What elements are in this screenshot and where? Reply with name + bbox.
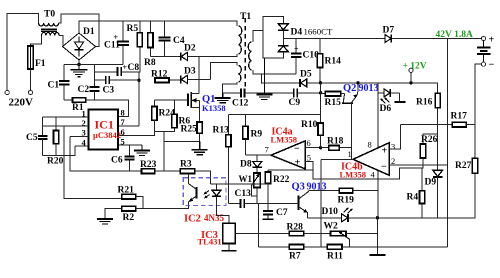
wire pin2 column down to R21	[64, 126, 122, 198]
resistor R18	[321, 147, 329, 149]
svg-text:C6: C6	[111, 156, 123, 166]
transformer T1 barrier dashed line	[244, 18, 246, 90]
resistor R2	[122, 206, 136, 211]
bridge D1 inner diode	[75, 37, 84, 57]
wire R21 R2 right join	[136, 197, 143, 209]
ground primary (C12)	[215, 93, 231, 103]
svg-text:R3: R3	[180, 160, 192, 170]
wire secondary bottom to ground line	[253, 70, 296, 74]
resistor R4	[420, 191, 425, 204]
potentiometer W2	[331, 231, 347, 236]
svg-text:Q2: Q2	[343, 83, 356, 94]
resistor R24	[154, 100, 156, 106]
wire bridge bottom to ground node	[78, 60, 80, 65]
transistor Q2	[341, 83, 358, 103]
wire T0 bottom coil right to bridge left vertex	[59, 36, 63, 47]
svg-text:1660CT: 1660CT	[304, 26, 333, 36]
svg-text:D2: D2	[184, 44, 196, 54]
wire Q2 base column	[351, 103, 353, 159]
wire C5 R20 bottom line to pin4 column	[43, 146, 76, 155]
wire IC4b pin4 column	[377, 168, 379, 218]
capacitor C8	[117, 67, 119, 76]
wire R2 left to ground	[105, 209, 122, 219]
wire IC4a pin5 path	[305, 162, 422, 180]
svg-text:220V: 220V	[9, 97, 34, 109]
svg-text:4N35: 4N35	[204, 213, 224, 223]
svg-text:C2: C2	[78, 85, 90, 95]
svg-text:7: 7	[265, 145, 269, 155]
resistor R28	[289, 231, 304, 236]
transformer T1 secondary winding	[248, 42, 251, 70]
wire drain line to T1 primary bottom	[199, 54, 237, 56]
wire C8 line	[94, 71, 117, 73]
capacitor C11	[122, 21, 124, 41]
svg-text:D7: D7	[383, 26, 395, 36]
bridge rectifier D1 diamond	[63, 33, 96, 60]
wire aux winding bottom to primary ground	[223, 82, 237, 93]
resistor R11	[327, 245, 342, 250]
wire R28 line	[258, 233, 289, 235]
svg-text:+: +	[295, 158, 301, 169]
wire T0 bottom coil left to fuse	[31, 36, 42, 47]
svg-text:R14: R14	[325, 57, 342, 67]
wire drain column	[198, 56, 200, 93]
node Q2 emitter on rail	[356, 81, 359, 84]
svg-text:R11: R11	[327, 252, 343, 262]
svg-text:R7: R7	[289, 252, 301, 262]
resistor R16	[435, 93, 440, 108]
svg-text:D6: D6	[380, 104, 392, 114]
ground Q1 source sense	[192, 141, 208, 154]
svg-text:+ 12V: + 12V	[403, 62, 427, 72]
svg-text:−: −	[381, 162, 387, 173]
svg-text:3: 3	[391, 142, 395, 152]
capacitor C2	[93, 65, 95, 87]
wire 42V sense riser	[447, 39, 449, 247]
diode D7	[385, 35, 391, 43]
opto LED	[204, 178, 227, 205]
resistor R15	[321, 93, 326, 95]
wire opto LED cathode to TL431	[217, 205, 230, 223]
svg-text:9013: 9013	[359, 83, 379, 94]
wire IC4b output feedback column	[320, 159, 322, 247]
svg-text:C7: C7	[276, 208, 288, 218]
resistor R27	[472, 158, 477, 173]
svg-text:8: 8	[121, 108, 125, 118]
wire R22 top branch	[268, 169, 313, 171]
wire mains left vertical	[7, 14, 38, 91]
svg-text:R19: R19	[338, 196, 355, 206]
svg-text:R18: R18	[327, 137, 344, 147]
diode D8	[253, 155, 262, 173]
ground IC1 pin5	[134, 145, 150, 156]
wire secondary top tap	[253, 31, 263, 42]
svg-text:8: 8	[368, 140, 372, 150]
svg-text:R10: R10	[301, 120, 318, 130]
svg-text:42V 1.8A: 42V 1.8A	[436, 30, 473, 40]
op-amp IC4a	[271, 141, 305, 169]
wire D5 branch from ground line	[262, 74, 300, 83]
svg-text:−: −	[489, 60, 495, 71]
svg-text:−: −	[294, 144, 300, 155]
transformer T1 primary winding	[239, 26, 242, 54]
diode D6 LED	[378, 89, 406, 104]
wire IC4b power column	[377, 83, 379, 149]
node pin6 R10 junction	[319, 146, 322, 149]
svg-text:Q3: Q3	[292, 182, 305, 193]
node D10 junction	[376, 216, 379, 219]
wire snubber D2 line	[150, 55, 180, 57]
capacitor C13	[229, 202, 241, 204]
battery symbol	[477, 41, 491, 63]
wire R27 bottom to bottom net	[377, 173, 475, 217]
wire TL431 bottom bar	[228, 244, 230, 251]
wire R13 column down to C13 line	[228, 147, 230, 204]
resistor R25	[197, 122, 202, 133]
diode D2	[181, 52, 199, 60]
wire R1 to pin8	[86, 100, 129, 117]
wire D3 to aux winding top	[211, 62, 237, 79]
wire R6 bottom jog to column	[164, 128, 174, 132]
resistor R19	[339, 188, 353, 193]
resistor R14	[319, 39, 321, 54]
resistor R8	[148, 33, 153, 48]
ground secondary main	[256, 58, 272, 100]
svg-text:R2: R2	[123, 213, 135, 223]
diode D4 lower	[278, 39, 288, 52]
svg-text:R15: R15	[325, 98, 342, 108]
svg-text:+: +	[382, 146, 388, 157]
wire R12 line to D3	[169, 79, 181, 81]
svg-text:R25: R25	[181, 125, 198, 135]
wire column x164 to pin3 line	[155, 132, 165, 171]
wire C3/R12 line from C2 column	[94, 79, 105, 81]
resistor R10	[318, 123, 323, 135]
wire R19 line	[309, 190, 339, 193]
svg-text:LM358: LM358	[340, 170, 366, 180]
diode D10 LED	[342, 207, 378, 222]
diode D3	[181, 75, 211, 83]
svg-text:K1358: K1358	[202, 103, 226, 113]
opto transistor	[188, 174, 196, 206]
ground R2	[97, 219, 113, 224]
wire gate line	[155, 99, 181, 101]
svg-text:IC2: IC2	[184, 214, 201, 225]
resistor R26	[420, 144, 425, 158]
node VCC junction	[137, 79, 140, 82]
wire R22 bottom to C7	[267, 184, 269, 211]
svg-text:R13: R13	[213, 126, 230, 136]
transformer T0 bottom winding	[42, 32, 60, 35]
resistor R23	[142, 169, 155, 174]
capacitor C9	[293, 88, 295, 97]
wire IC4b output line	[321, 158, 353, 160]
svg-text:R20: R20	[47, 157, 64, 167]
transformer T1 aux winding	[238, 65, 241, 82]
svg-text:D8: D8	[240, 160, 252, 170]
node 12V terminal junction	[409, 81, 412, 84]
wire R9 bottom to op-amp output line	[245, 139, 247, 155]
svg-text:LM358: LM358	[271, 135, 297, 145]
ground primary (bridge)	[70, 65, 87, 77]
svg-text:T0: T0	[44, 10, 55, 20]
svg-text:R16: R16	[416, 98, 433, 108]
svg-text:W2: W2	[324, 222, 339, 232]
resistor R17	[401, 124, 453, 126]
transformer T0 top winding	[39, 23, 59, 26]
capacitor C10	[295, 39, 297, 54]
capacitor C12	[223, 92, 241, 94]
resistor R21	[122, 194, 136, 199]
resistor R3	[180, 169, 194, 174]
svg-text:6: 6	[307, 138, 311, 148]
wire R7 line	[258, 246, 289, 248]
wire opto emitter line	[143, 205, 189, 208]
wire pin3 column down to long line	[70, 136, 211, 171]
svg-text:C9: C9	[289, 98, 301, 108]
svg-text:R8: R8	[144, 58, 156, 68]
svg-text:D4: D4	[291, 28, 303, 38]
svg-text:D9: D9	[425, 178, 437, 188]
node bridge ground junction	[77, 63, 80, 66]
svg-text:R12: R12	[151, 70, 168, 80]
wire primary ground rail	[64, 64, 123, 66]
svg-text:C8: C8	[128, 63, 140, 73]
capacitor C7	[263, 210, 273, 212]
capacitor C6	[129, 145, 131, 156]
wire R5 column	[139, 21, 141, 33]
wire IC4b pin3	[389, 125, 401, 149]
svg-text:R26: R26	[421, 135, 438, 145]
resistor R6	[174, 100, 176, 114]
svg-text:+: +	[294, 45, 299, 54]
svg-text:C1: C1	[48, 81, 60, 91]
resistor R1	[72, 98, 85, 103]
svg-text:+: +	[489, 35, 495, 46]
wire R8 column	[149, 21, 151, 33]
wire opto LED anode line	[226, 183, 268, 185]
battery plus terminal	[481, 36, 485, 40]
svg-text:D3: D3	[184, 67, 196, 77]
resistor R13	[228, 115, 230, 135]
diode D5	[300, 79, 321, 87]
op-amp IC4b	[353, 143, 389, 175]
svg-text:6: 6	[121, 127, 125, 137]
wire R25 column from Q1 source	[164, 133, 199, 141]
wire C4 column	[164, 21, 166, 37]
resistor R12	[155, 78, 169, 83]
svg-text:R23: R23	[140, 160, 157, 170]
svg-text:R28: R28	[287, 223, 304, 233]
wire W1 C13 column down to R7 line	[257, 203, 259, 246]
optocoupler IC2 dashed box	[183, 178, 226, 206]
wire 42V output line	[283, 38, 481, 40]
transformer T0 core	[41, 28, 57, 30]
svg-text:W1: W1	[239, 174, 253, 184]
wire R16 bottom to R26	[423, 108, 438, 144]
wire Q3 base line	[257, 202, 294, 204]
svg-text:C13: C13	[235, 189, 252, 199]
wire 12V rail	[321, 83, 438, 93]
wire IC4a pin6 line	[305, 147, 320, 149]
node aux 12V junction	[319, 81, 322, 84]
battery minus terminal	[481, 62, 485, 66]
svg-text:R17: R17	[451, 112, 468, 122]
wire T0 top coil right to bridge	[59, 14, 99, 47]
fuse F1	[28, 46, 34, 69]
svg-text:μC3842: μC3842	[93, 130, 121, 140]
wire R1 line	[64, 99, 72, 101]
svg-text:C11: C11	[104, 41, 120, 51]
wire IC4a output line	[246, 154, 272, 156]
node C9 junction	[319, 91, 322, 94]
svg-text:D5: D5	[300, 70, 312, 80]
svg-text:C5: C5	[26, 133, 38, 143]
terminal circle L	[5, 90, 9, 94]
svg-text:1: 1	[348, 149, 352, 159]
wire R14 D5 C9 R10 column	[320, 83, 322, 123]
diode D9	[433, 158, 443, 218]
capacitor C5	[42, 117, 44, 135]
ground output stem	[376, 218, 378, 255]
svg-text:D10: D10	[322, 207, 339, 217]
transistor Q3	[295, 191, 309, 218]
resistor R7	[289, 245, 304, 250]
resistor R5	[137, 33, 142, 47]
wire R24 bottom column and pin6 link	[118, 120, 154, 135]
wire C12 right ground stem	[262, 93, 264, 95]
svg-text:R21: R21	[118, 186, 135, 196]
wire fuse to terminal	[30, 69, 32, 91]
MOSFET Q1	[188, 92, 191, 108]
svg-text:F1: F1	[35, 59, 46, 69]
svg-text:R22: R22	[273, 175, 290, 185]
wire D9 R26 junction	[437, 134, 439, 158]
wire W1 bottom	[256, 188, 258, 204]
wire R26 bottom to R4 top	[421, 158, 424, 191]
resistor R20	[55, 117, 57, 130]
svg-text:R4: R4	[407, 193, 419, 203]
svg-text:D1: D1	[83, 27, 95, 37]
svg-text:R5: R5	[127, 24, 139, 34]
diode D4 upper	[278, 24, 288, 39]
wire bridge top vertex to +DC rail	[79, 21, 237, 33]
wire R9 R10 R13 top tie line	[229, 114, 321, 116]
svg-text:C3: C3	[103, 86, 115, 96]
capacitor C1	[63, 65, 65, 81]
capacitor C3	[105, 76, 107, 84]
wire IC4b pin2	[389, 164, 448, 166]
resistor R9	[245, 115, 247, 127]
resistor R22	[267, 170, 269, 172]
wire D10 line	[308, 217, 342, 219]
svg-text:C12: C12	[232, 99, 249, 109]
wire R3 right to opto LED feed	[195, 171, 211, 178]
wire D4 rectifier box	[263, 16, 283, 30]
svg-text:R9: R9	[251, 130, 263, 140]
IC box IC1	[89, 109, 119, 149]
capacitor C4	[159, 36, 171, 38]
wire battery minus column	[475, 64, 481, 158]
terminal circle R	[28, 90, 32, 94]
svg-text:TL431: TL431	[198, 237, 222, 247]
potentiometer W1	[254, 173, 260, 188]
svg-text:R27: R27	[455, 161, 472, 171]
wiper W2	[339, 232, 350, 239]
wire TL431 ref line	[235, 233, 258, 235]
IC3 TL431 box	[223, 223, 235, 243]
